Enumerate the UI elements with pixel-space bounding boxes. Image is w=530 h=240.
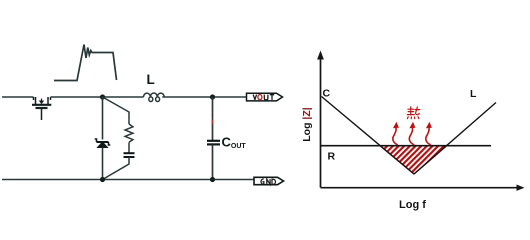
node: diode anode junction dot [100, 177, 105, 182]
node: COUT bottom junction dot [210, 177, 215, 182]
flag VOUT [247, 93, 283, 101]
heat arrow 3 [426, 122, 432, 145]
node SW junction dot [100, 94, 105, 99]
svg-text:Log |Z|: Log |Z| [301, 107, 313, 142]
capacitor COUT [207, 141, 220, 145]
svg-text:L: L [147, 72, 155, 87]
transistor Q1 (MOSFET) [32, 97, 51, 120]
wire: MOSFET to inductor (switch node) [51, 96, 144, 98]
heat arrow 2 [409, 122, 415, 145]
bottom rail (ground return) [2, 179, 254, 181]
capacitor C (snubber) [124, 153, 135, 157]
wire: snubber bottom diagonal [103, 157, 130, 180]
x-axis (Log f) [321, 185, 525, 191]
wire: diode to bottom rail [102, 148, 104, 180]
y-axis (Log |Z|) [317, 51, 324, 188]
heat arrow 1 [393, 122, 399, 145]
polarity mark (red tick) on COUT wire [212, 120, 214, 125]
wire: COUT to bottom rail [212, 144, 214, 179]
diode D1 (Schottky catch diode) [95, 139, 111, 148]
svg-text:R: R [328, 151, 336, 163]
line R (resistive impedance) [321, 145, 492, 147]
curve L (inductive impedance) [414, 103, 496, 175]
svg-text:L: L [470, 88, 477, 100]
curve C (capacitive impedance) [322, 97, 415, 175]
wire: resistor to snubber capacitor [128, 143, 130, 154]
wire: switch node down to diode [102, 97, 104, 140]
svg-text:Log f: Log f [399, 199, 426, 211]
label 熱 (heat), drawn as strokes [407, 107, 419, 119]
inductor L1 [143, 93, 164, 101]
wire: snubber top diagonal [103, 97, 130, 124]
wire: output node down to COUT [212, 97, 214, 140]
resistor R (snubber) [125, 124, 133, 142]
svg-text:COUT: COUT [222, 135, 247, 151]
wire: inductor to output node [162, 96, 246, 98]
svg-text:C: C [323, 88, 331, 100]
flag GND [254, 177, 284, 184]
node VOUT junction dot [210, 94, 215, 99]
wire: input to MOSFET [2, 96, 34, 98]
switching waveform [54, 45, 117, 81]
resonance region hatched triangle [380, 146, 447, 174]
